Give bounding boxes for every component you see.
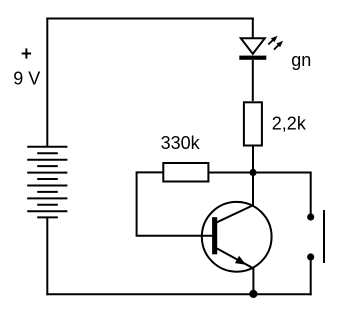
svg-text:9 V: 9 V	[13, 69, 40, 89]
wire R2 left loop to base	[137, 172, 213, 235]
label 9 V	[13, 69, 40, 89]
resistor R2 330k	[163, 163, 208, 182]
transistor Q1	[202, 202, 272, 272]
switch S1 actuator bar	[323, 210, 325, 263]
switch S1 lower contact	[307, 253, 314, 260]
node B (bottom junction dot)	[249, 290, 257, 298]
wire bottom rail	[46, 293, 311, 295]
LED light arrow 1	[268, 36, 277, 45]
svg-text:gn: gn	[291, 50, 311, 70]
switch S1 upper contact	[307, 213, 314, 220]
wire LED anode drop	[252, 18, 254, 39]
battery B1	[27, 147, 67, 218]
resistor R1 2,2k	[244, 102, 262, 145]
svg-text:330k: 330k	[161, 133, 201, 153]
wire R1 bottom to node A	[252, 146, 254, 172]
wire emitter to bottom node	[252, 268, 254, 295]
label 330k	[161, 133, 201, 153]
svg-text:2,2k: 2,2k	[272, 113, 307, 133]
LED D1	[239, 38, 266, 60]
LED light arrow 2	[274, 41, 283, 50]
node A (junction dot)	[249, 169, 256, 176]
wire switch to bottom rail	[310, 261, 312, 296]
wire R2 right to node A	[208, 172, 253, 174]
label + (battery positive)	[22, 48, 31, 58]
wire LED cathode to resistor R1	[252, 60, 254, 101]
wire collector to node A	[252, 176, 254, 206]
wire left vertical (battery + to top rail)	[46, 19, 48, 148]
wire top rail	[46, 18, 254, 20]
label gn	[291, 50, 311, 70]
wire node A to switch	[253, 173, 311, 214]
label 2,2k	[272, 113, 307, 133]
wire battery negative to bottom rail	[46, 217, 48, 295]
